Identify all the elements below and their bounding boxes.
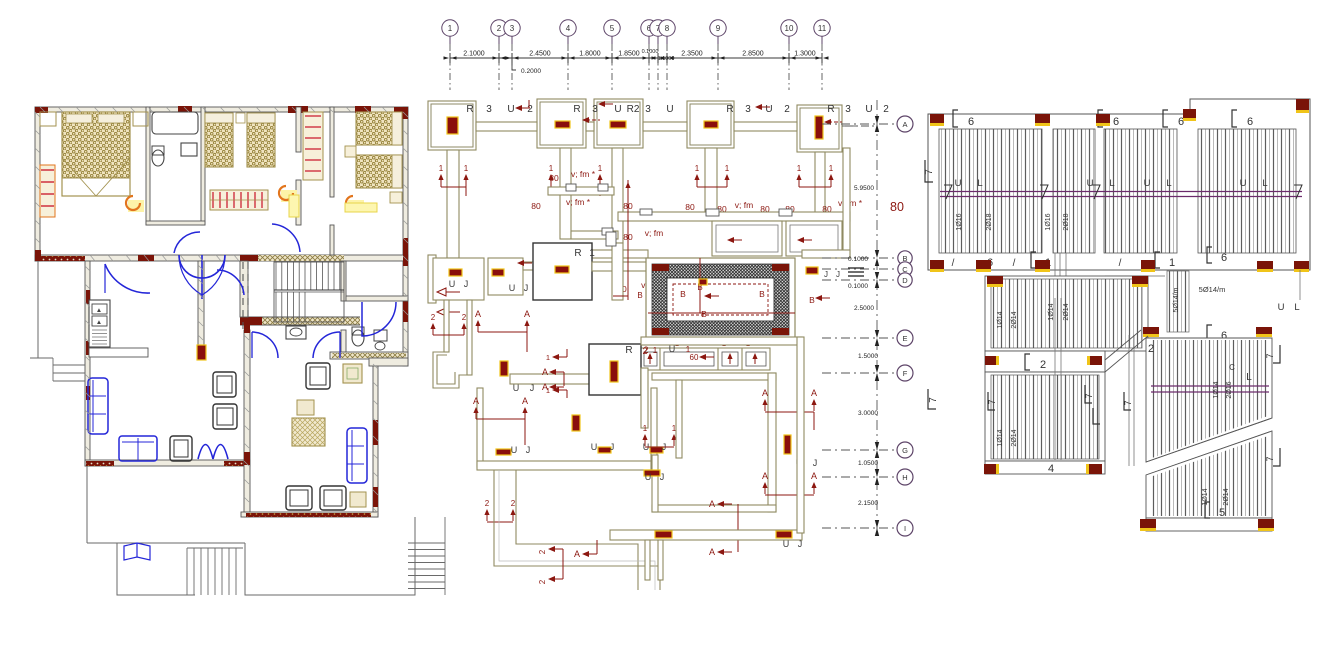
svg-text:1.1000: 1.1000 [658, 56, 675, 62]
svg-text:1: 1 [797, 164, 802, 173]
svg-text:1: 1 [653, 346, 658, 355]
svg-text:v; fm: v; fm [735, 200, 753, 210]
svg-text:F: F [903, 369, 908, 378]
svg-text:R: R [574, 248, 581, 259]
svg-text:1: 1 [439, 164, 444, 173]
svg-text:2: 2 [538, 579, 547, 584]
svg-text:10: 10 [785, 24, 794, 33]
svg-text:/: / [952, 258, 955, 269]
svg-text:U: U [591, 442, 598, 452]
svg-text:2: 2 [538, 549, 547, 554]
svg-text:5Ø14/m: 5Ø14/m [1199, 285, 1226, 294]
svg-text:1: 1 [598, 164, 603, 173]
svg-text:L: L [1166, 178, 1171, 189]
svg-text:G: G [902, 446, 908, 455]
svg-text:R: R [466, 104, 473, 115]
svg-text:2: 2 [527, 104, 533, 115]
svg-text:J: J [824, 270, 828, 279]
svg-text:A: A [762, 471, 768, 481]
svg-text:U: U [511, 445, 518, 455]
svg-text:U: U [645, 472, 652, 482]
svg-text:B: B [759, 289, 765, 299]
svg-text:7: 7 [1265, 456, 1275, 461]
svg-text:J: J [798, 539, 803, 549]
svg-text:R: R [827, 104, 834, 115]
svg-text:2.4500: 2.4500 [529, 51, 551, 58]
svg-text:U: U [955, 178, 962, 189]
svg-text:J: J [813, 458, 818, 468]
svg-text:R: R [573, 104, 580, 115]
svg-text:A: A [473, 396, 479, 406]
svg-text:5Ø14/m: 5Ø14/m [1173, 287, 1180, 312]
svg-text:80: 80 [890, 200, 904, 214]
svg-text:6: 6 [968, 116, 974, 128]
svg-text:L: L [1262, 178, 1267, 189]
svg-text:J: J [464, 279, 469, 289]
svg-text:1Ø14: 1Ø14 [1048, 303, 1055, 320]
svg-text:1Ø16: 1Ø16 [956, 213, 963, 230]
svg-text:6: 6 [1247, 116, 1253, 128]
svg-text:A: A [524, 309, 530, 319]
svg-text:▲: ▲ [96, 307, 102, 314]
svg-text:2: 2 [1040, 359, 1046, 371]
svg-text:L: L [1246, 372, 1252, 383]
svg-text:1.5000: 1.5000 [858, 353, 878, 360]
svg-text:7: 7 [928, 397, 939, 403]
svg-text:3: 3 [645, 104, 651, 115]
svg-text:1: 1 [686, 345, 691, 354]
svg-text:J: J [526, 445, 531, 455]
svg-text:2Ø18: 2Ø18 [1063, 213, 1070, 230]
svg-text:U: U [765, 104, 772, 115]
svg-text:B: B [637, 291, 642, 300]
svg-text:1Ø14: 1Ø14 [1202, 488, 1209, 505]
svg-text:A: A [542, 367, 548, 377]
svg-text:U: U [1278, 302, 1285, 313]
svg-text:1Ø16: 1Ø16 [1045, 213, 1052, 230]
svg-text:7: 7 [1084, 393, 1094, 398]
svg-text:2: 2 [462, 313, 467, 322]
svg-text:R: R [726, 104, 733, 115]
svg-text:▲: ▲ [96, 319, 102, 326]
svg-text:2.8500: 2.8500 [742, 51, 764, 58]
svg-text:3: 3 [745, 104, 751, 115]
svg-text:3: 3 [845, 104, 851, 115]
svg-text:1Ø14: 1Ø14 [997, 311, 1004, 328]
svg-text:2: 2 [485, 499, 490, 508]
svg-text:3: 3 [510, 24, 515, 33]
svg-text:A: A [811, 471, 817, 481]
svg-text:6: 6 [1113, 116, 1119, 128]
svg-text:2.5000: 2.5000 [854, 305, 874, 312]
svg-text:2: 2 [883, 104, 889, 115]
svg-text:2: 2 [1148, 343, 1154, 355]
svg-text:A: A [709, 499, 715, 509]
svg-text:3: 3 [592, 104, 598, 115]
svg-text:I: I [904, 524, 906, 533]
svg-text:2Ø14: 2Ø14 [1011, 429, 1018, 446]
svg-text:11: 11 [818, 24, 827, 33]
svg-text:4: 4 [566, 24, 571, 33]
svg-text:0.1000: 0.1000 [642, 49, 659, 55]
svg-text:C: C [1229, 363, 1235, 372]
svg-text:2Ø18: 2Ø18 [986, 213, 993, 230]
svg-text:9: 9 [716, 24, 721, 33]
svg-text:U: U [507, 104, 514, 115]
svg-text:v; fm: v; fm [645, 228, 663, 238]
svg-text:U: U [666, 104, 673, 115]
svg-text:U: U [1240, 178, 1247, 189]
svg-text:A: A [902, 120, 907, 129]
svg-text:U: U [509, 283, 516, 293]
svg-text:2: 2 [511, 499, 516, 508]
svg-text:4: 4 [1048, 463, 1054, 475]
svg-text:80: 80 [549, 173, 559, 183]
svg-text:1: 1 [829, 164, 834, 173]
svg-text:1: 1 [589, 248, 595, 259]
svg-text:2: 2 [497, 24, 502, 33]
svg-text:L: L [977, 178, 982, 189]
svg-text:B: B [701, 309, 707, 319]
svg-text:U: U [1144, 178, 1151, 189]
svg-text:L: L [1294, 302, 1299, 313]
svg-text:1: 1 [695, 164, 700, 173]
svg-text:2.1500: 2.1500 [858, 500, 878, 507]
svg-text:80: 80 [531, 201, 541, 211]
svg-text:D: D [902, 276, 908, 285]
svg-text:1: 1 [546, 353, 550, 362]
svg-text:8: 8 [665, 24, 670, 33]
svg-text:J: J [524, 283, 529, 293]
svg-text:2Ø14: 2Ø14 [1011, 311, 1018, 328]
svg-text:1.0500: 1.0500 [858, 460, 878, 467]
svg-text:E: E [902, 334, 907, 343]
svg-text:5: 5 [610, 24, 615, 33]
svg-text:1.8000: 1.8000 [579, 51, 601, 58]
svg-text:3.0000: 3.0000 [858, 410, 878, 417]
svg-text:2Ø14: 2Ø14 [1223, 488, 1230, 505]
svg-text:L: L [1109, 178, 1114, 189]
svg-text:J: J [610, 442, 615, 452]
svg-text:A: A [811, 388, 817, 398]
svg-text:/: / [1013, 258, 1016, 269]
svg-text:J: J [836, 270, 840, 279]
svg-text:1: 1 [1169, 257, 1175, 269]
svg-text:3: 3 [486, 104, 492, 115]
svg-text:2: 2 [431, 313, 436, 322]
svg-text:U: U [865, 104, 872, 115]
svg-text:1.8500: 1.8500 [618, 51, 640, 58]
svg-text:2Ø14: 2Ø14 [1063, 303, 1070, 320]
svg-text:1: 1 [725, 164, 730, 173]
svg-text:1: 1 [643, 424, 648, 433]
svg-text:7: 7 [924, 169, 935, 175]
svg-text:A: A [574, 549, 580, 559]
svg-text:A: A [762, 388, 768, 398]
svg-text:H: H [902, 473, 907, 482]
svg-text:0.2000: 0.2000 [521, 68, 541, 75]
svg-text:1Ø14: 1Ø14 [1213, 381, 1220, 398]
svg-text:B: B [809, 295, 815, 305]
svg-text:v; fm *: v; fm * [566, 197, 591, 207]
svg-text:7: 7 [1265, 353, 1275, 358]
svg-text:U: U [614, 104, 621, 115]
svg-text:2.3500: 2.3500 [681, 51, 703, 58]
svg-text:R: R [625, 345, 632, 356]
svg-text:5: 5 [1219, 507, 1225, 519]
svg-text:v; fm *: v; fm * [571, 169, 596, 179]
svg-text:2: 2 [643, 345, 648, 355]
svg-text:U: U [449, 279, 456, 289]
svg-text:A: A [709, 547, 715, 557]
svg-text:J: J [660, 472, 665, 482]
svg-text:0.1000: 0.1000 [848, 283, 868, 290]
svg-text:1.3000: 1.3000 [794, 51, 816, 58]
svg-text:2.1000: 2.1000 [463, 51, 485, 58]
svg-text:U: U [783, 539, 790, 549]
svg-text:7: 7 [987, 399, 997, 404]
svg-text:B: B [680, 289, 686, 299]
svg-text:1: 1 [464, 164, 469, 173]
svg-text:80: 80 [685, 202, 695, 212]
svg-text:/: / [1119, 258, 1122, 269]
svg-text:6: 6 [1221, 252, 1227, 264]
svg-text:A: A [522, 396, 528, 406]
svg-text:1: 1 [448, 24, 453, 33]
svg-text:2Ø16: 2Ø16 [1226, 381, 1233, 398]
svg-text:1: 1 [549, 164, 554, 173]
svg-text:A: A [475, 309, 481, 319]
svg-text:7: 7 [1123, 400, 1133, 405]
svg-text:1Ø14: 1Ø14 [997, 429, 1004, 446]
svg-text:5.9500: 5.9500 [854, 185, 874, 192]
svg-text:0.1000: 0.1000 [848, 256, 868, 263]
svg-text:R2: R2 [627, 104, 640, 115]
svg-text:60: 60 [690, 353, 699, 362]
svg-text:A: A [542, 382, 548, 392]
svg-text:2: 2 [784, 104, 790, 115]
svg-text:U: U [1087, 178, 1094, 189]
